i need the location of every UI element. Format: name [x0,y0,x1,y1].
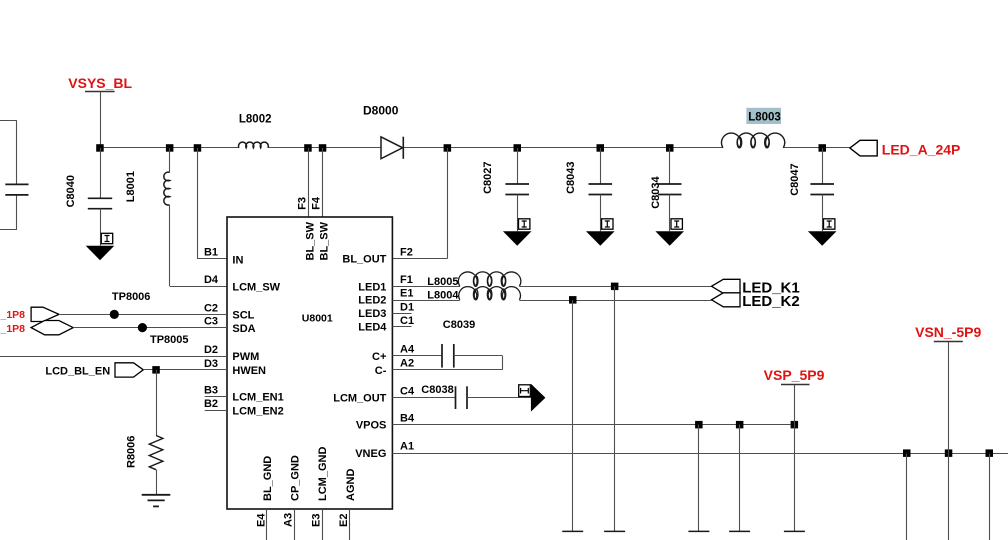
svg-text:E4: E4 [255,513,267,527]
svg-text:VSYS_BL: VSYS_BL [68,75,132,91]
pin stub LED3 [392,313,411,315]
wire L8004 to LED_K2 [519,300,711,302]
wire F4 drop [322,148,324,217]
wire VPOS rail [392,424,794,426]
svg-text:TP8006: TP8006 [112,291,151,303]
svg-text:CP_GND: CP_GND [289,455,301,501]
svg-text:LED_K2: LED_K2 [742,293,800,310]
wire LCM_OUT to C8038 [392,397,455,399]
power flag VSP_5P9 [764,367,825,385]
svg-text:LCM_EN1: LCM_EN1 [232,392,283,404]
svg-text:B3: B3 [204,384,218,396]
ground (I) under C8034 [655,219,684,246]
svg-text:SCL: SCL [232,310,254,322]
IC U8001 body [227,217,392,509]
svg-text:C4: C4 [400,386,415,398]
node junction F4 BL_SW [319,144,327,152]
svg-text:B2: B2 [204,398,218,410]
inductor L8003 (highlighted) [721,108,784,148]
svg-text:VSN_-5P9: VSN_-5P9 [915,324,981,340]
svg-text:E1: E1 [400,288,413,300]
wire LED1 to L8005 [392,286,459,288]
test point TP8005 [138,323,189,346]
svg-text:LCM_EN2: LCM_EN2 [232,406,283,418]
node junction VPOS 1 [695,421,703,429]
svg-text:C+: C+ [372,351,386,363]
svg-text:A1: A1 [400,441,414,453]
node junction VNEG/VSN [945,449,953,457]
test point TP8006 [110,291,151,319]
port connector LED_A_24P [850,140,960,157]
wire VSP_5P9 riser/drop [794,385,796,531]
svg-text:B4: B4 [400,412,415,424]
diode D8000 [363,103,403,159]
wire VPOS drop 1 [698,425,700,532]
svg-text:C8043: C8043 [565,161,577,193]
svg-text:L8001: L8001 [125,171,137,202]
wire VSYS_BL to main rail [100,92,102,148]
pin stub LED4 [392,326,411,328]
svg-text:BL_GND: BL_GND [262,456,274,501]
node junction IN tap [194,144,202,152]
wire R8006 to ground [156,470,158,495]
ground (I) under C8043 [586,219,615,246]
svg-text:D2: D2 [204,344,218,356]
wire terminator bar (VPOS 1 rail) [688,530,709,532]
inductor L8002 [239,114,272,148]
capacitor C8038 [421,384,467,409]
wire L8005 to LED_K1 [519,286,711,288]
node junction LED1 rail [611,283,619,291]
node junction VSYS/C8040 [96,144,104,152]
svg-text:VSP_5P9: VSP_5P9 [764,367,825,383]
svg-text:C3: C3 [204,316,218,328]
svg-text:C-: C- [375,365,387,377]
svg-text:E3: E3 [310,514,322,527]
wire L8001 to LCM_SW pin D4 [170,286,227,288]
node junction C8034 [666,144,674,152]
wire BL_GND pin E4 [266,509,268,540]
wire LED1 junction down [614,286,616,531]
wire rail to IN pin B1 [197,148,199,259]
svg-text:L8002: L8002 [239,114,272,126]
capacitor C8039 [442,319,475,368]
svg-text:LED3: LED3 [358,308,386,320]
svg-text:LED2: LED2 [358,294,386,306]
svg-text:LCD_BL_EN: LCD_BL_EN [45,366,110,378]
svg-text:R8006: R8006 [126,436,138,468]
wire: partial component frame at left edge [0,121,17,230]
capacitor C8027 [482,148,529,231]
node junction C8043 [597,144,605,152]
capacitor C8040 [65,148,112,246]
svg-text:VPOS: VPOS [356,420,387,432]
svg-text:C8038: C8038 [421,384,453,396]
svg-text:A4: A4 [400,344,415,356]
port connector (SDA bidirectional) [31,321,73,335]
svg-text:BL_SW: BL_SW [319,221,331,260]
wire LED2 junction down [572,300,574,531]
capacitor C8034 [650,148,682,231]
svg-text:F1: F1 [400,274,413,286]
wire BL_OUT F2 to rail [447,148,449,259]
svg-text:C8027: C8027 [482,161,494,193]
node junction F3 BL_SW [304,144,312,152]
node junction VPOS 2 [736,421,744,429]
node junction L8001 tap [166,144,174,152]
svg-text:PWM: PWM [232,351,259,363]
node junction VPOS/VSP_5P9 [791,421,799,429]
power flag VSN_-5P9 [915,324,981,341]
capacitor (unlabeled, cut off at left edge) [5,184,28,195]
svg-text:BL_SW: BL_SW [305,221,317,260]
wire PWM [0,356,227,358]
pin stub LCM_EN2 [205,410,227,412]
wire VNEG drop 2 [989,453,991,540]
svg-text:AGND: AGND [345,469,357,501]
svg-text:LCM_SW: LCM_SW [232,281,280,293]
svg-text:F3: F3 [296,197,308,210]
node junction VNEG 2 [986,449,994,457]
svg-text:LED1: LED1 [358,281,386,293]
node junction LED2 rail [569,296,577,304]
ground (I) under C8027 [503,219,532,246]
inductor L8004 [427,287,520,302]
svg-text:C8034: C8034 [650,176,662,209]
ground (I) under C8040 [86,233,115,260]
wire CP_GND pin A3 [294,509,296,540]
port connector LED_K2 [712,293,800,310]
svg-text:_1P8: _1P8 [0,323,25,335]
wire terminator bar (VSP rail) [784,530,805,532]
svg-text:A3: A3 [283,513,295,527]
wire VSN_-5P9 riser/drop [948,342,950,540]
svg-text:LED_A_24P: LED_A_24P [882,141,961,157]
pin stub LCM_EN1 [205,396,227,398]
wire C+ to C8039 [392,355,442,357]
svg-text:_1P8: _1P8 [0,309,25,321]
svg-text:C8040: C8040 [65,175,77,207]
wire AGND pin E2 [349,509,351,540]
capacitor C8047 [789,148,834,231]
svg-text:F4: F4 [310,196,322,210]
svg-text:L8003: L8003 [748,112,781,124]
svg-text:C2: C2 [204,302,218,314]
svg-text:VNEG: VNEG [355,448,386,460]
svg-text:SDA: SDA [232,323,255,335]
wire LCM_GND pin E3 [322,509,324,540]
wire VNEG drop 1 [906,453,908,540]
wire terminator bar (LED2 rail) [562,530,583,532]
node junction BL_OUT [444,144,452,152]
port connector LCD_BL_EN [45,363,143,378]
inductor L8001 [125,148,170,286]
node junction C8047/LED_A [819,144,827,152]
wire HWEN [143,369,227,371]
svg-text:D1: D1 [400,301,414,313]
earth ground under R8006 [142,495,171,507]
wire VNEG rail [392,453,1008,455]
wire C8038 to off-page arrow [467,397,531,399]
inductor L8005 [427,272,521,288]
port connector (SCL input) [31,307,59,321]
svg-text:U8001: U8001 [302,313,333,325]
svg-text:IN: IN [232,254,243,266]
off-page arrow (I) LCM_OUT [519,384,546,412]
svg-text:D4: D4 [204,274,219,286]
svg-text:E2: E2 [338,514,350,527]
wire SDA [73,327,227,329]
wire C8039 to C- [454,355,503,357]
svg-text:F2: F2 [400,246,413,258]
svg-text:HWEN: HWEN [232,365,266,377]
svg-text:C1: C1 [400,315,414,327]
svg-text:D8000: D8000 [363,103,399,117]
svg-text:LCM_GND: LCM_GND [317,447,329,501]
wire: main rail under diode D8000 [268,147,723,149]
wire VPOS drop 2 [739,425,741,532]
wire terminator bar (LED1 rail) [604,530,625,532]
wire LED2 to L8004 [392,300,459,302]
wire: rail from L8003 to LED_A connector [783,147,850,149]
svg-text:B1: B1 [204,247,218,259]
svg-text:LED4: LED4 [358,321,387,333]
ground (I) under C8047 [808,219,837,246]
svg-text:C8047: C8047 [789,163,801,195]
svg-text:C8039: C8039 [443,319,475,331]
node junction HWEN/R8006 [152,366,160,374]
svg-text:BL_OUT: BL_OUT [342,254,386,266]
svg-text:L8004: L8004 [427,290,459,302]
svg-text:A2: A2 [400,358,414,370]
wire: main rail VSYS node [100,147,239,149]
svg-text:TP8005: TP8005 [150,334,189,346]
node junction VNEG 1 [903,449,911,457]
wire terminator bar (VPOS 2 rail) [729,530,750,532]
port connector LED_K1 [712,279,800,296]
svg-text:LCM_OUT: LCM_OUT [333,393,386,405]
resistor R8006 [126,436,163,470]
node junction C8027 [514,144,522,152]
power flag VSYS_BL [68,75,132,92]
svg-text:D3: D3 [204,358,218,370]
svg-text:L8005: L8005 [427,276,458,288]
wire HWEN to R8006 [156,370,158,436]
wire SCL [59,314,227,316]
capacitor C8043 [565,148,612,231]
wire F3 drop [308,148,310,217]
